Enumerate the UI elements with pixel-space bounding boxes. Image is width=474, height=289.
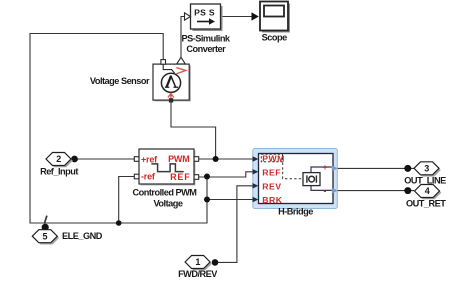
svg-text:BRK: BRK [262,195,283,205]
svg-text:-ref: -ref [141,172,156,182]
svg-text:ELE_GND: ELE_GND [62,231,103,241]
svg-text:H-Bridge: H-Bridge [278,207,313,217]
svg-text:Ref_Input: Ref_Input [40,167,78,177]
svg-text:Voltage: Voltage [153,198,182,208]
svg-text:5: 5 [43,231,48,241]
svg-text:Voltage Sensor: Voltage Sensor [90,76,150,86]
svg-text:Controlled PWM: Controlled PWM [133,187,198,197]
svg-text:REV: REV [262,181,281,191]
svg-text:REF: REF [170,172,190,182]
svg-text:-: - [324,185,327,195]
svg-text:PS-Simulink: PS-Simulink [181,33,230,43]
svg-text:OUT_RET: OUT_RET [406,198,446,208]
svg-text:Converter: Converter [186,44,226,54]
svg-text:3: 3 [424,163,429,173]
svg-text:+ref: +ref [141,154,158,164]
svg-text:2: 2 [56,154,61,164]
svg-text:FWD/REV: FWD/REV [178,269,218,279]
svg-text:OUT_LINE: OUT_LINE [404,176,446,186]
svg-text:4: 4 [425,186,430,196]
svg-text:PWM: PWM [168,154,189,164]
svg-text:PS S: PS S [194,7,215,17]
svg-text:Scope: Scope [262,32,287,42]
svg-text:REF: REF [262,168,281,178]
svg-text:+: + [323,162,328,172]
svg-text:1: 1 [195,257,200,267]
